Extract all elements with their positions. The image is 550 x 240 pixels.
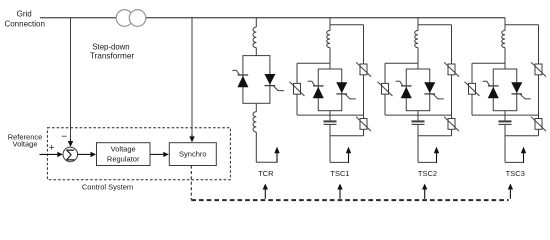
svg-text:+: + [49, 143, 55, 154]
svg-text:TCR: TCR [258, 169, 274, 178]
svg-text:Voltage: Voltage [12, 139, 37, 148]
svg-text:Connection: Connection [4, 19, 44, 28]
svg-text:Control System: Control System [82, 182, 133, 191]
svg-text:Transformer: Transformer [90, 51, 135, 60]
svg-text:−: − [61, 131, 67, 142]
svg-text:TSC3: TSC3 [506, 169, 525, 178]
svg-text:TSC2: TSC2 [418, 169, 437, 178]
svg-text:Grid: Grid [17, 10, 32, 19]
svg-text:Synchro: Synchro [179, 149, 207, 158]
svg-text:Step-down: Step-down [92, 43, 129, 52]
svg-text:Regulator: Regulator [107, 155, 140, 164]
svg-text:TSC1: TSC1 [330, 169, 349, 178]
svg-text:Σ: Σ [65, 147, 75, 164]
svg-text:Voltage: Voltage [111, 144, 136, 153]
